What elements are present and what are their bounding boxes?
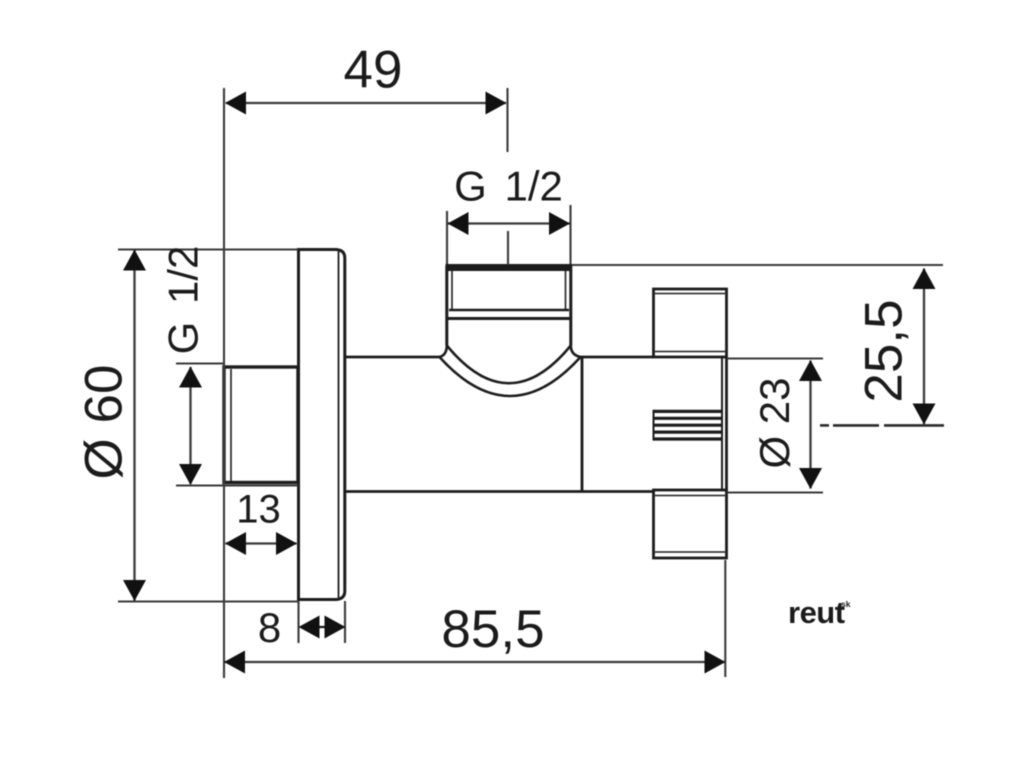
svg-text:reut: reut [788, 595, 845, 630]
dim 25,5 extension line top [572, 264, 943, 266]
svg-text:G 1/2: G 1/2 [454, 163, 563, 210]
svg-text:25,5: 25,5 [855, 299, 914, 402]
svg-text:49: 49 [344, 41, 403, 100]
svg-text:Ø 23: Ø 23 [751, 377, 798, 468]
reut logo [788, 595, 851, 630]
svg-text:sk: sk [841, 599, 851, 609]
svg-text:Ø 60: Ø 60 [75, 365, 134, 480]
dim G1/2 left line [189, 367, 191, 484]
dim dia23 arrows [799, 360, 822, 489]
dim 8 extension lines [299, 601, 346, 643]
dim 25,5 line [923, 269, 925, 425]
valve body [345, 357, 654, 492]
handle lower flange [654, 490, 727, 558]
inlet pipe stub [224, 367, 298, 483]
handle mid section edges [722, 357, 727, 490]
dim dia23 line [809, 361, 811, 489]
dim dia60 extension lines [118, 250, 299, 602]
svg-text:13: 13 [236, 488, 281, 532]
dim 8 arrows [299, 616, 346, 639]
dim 85,5 arrows [224, 651, 726, 674]
dim G1/2 left extension lines [176, 364, 298, 486]
dim 49 line [226, 102, 506, 104]
dim G1/2 left arrows [179, 367, 202, 486]
wall plate (rosette) [299, 250, 345, 600]
dim G1/2 top arrows [448, 212, 571, 235]
dim 25,5 arrows [913, 268, 936, 425]
centerline (dash-dot) [820, 424, 944, 427]
svg-text:85,5: 85,5 [441, 600, 544, 659]
dim dia60 line [133, 250, 135, 601]
dim G1/2 top extension lines [447, 205, 571, 264]
top outlet G1/2 thread [447, 265, 572, 346]
dim 13 line [226, 542, 297, 544]
dim 13 arrows [225, 532, 297, 555]
outlet-to-body saddle curves [440, 346, 581, 397]
dim dia60 arrows [123, 250, 146, 602]
dim 49 arrows [225, 92, 507, 115]
dim 85,5 extension line right [724, 560, 726, 677]
dim dia23 extension lines [727, 359, 823, 493]
dim G1/2 top line [448, 222, 570, 224]
svg-text:8: 8 [258, 604, 281, 651]
svg-text:G 1/2: G 1/2 [160, 246, 207, 355]
dim 85,5 line [225, 661, 725, 663]
dim 49 extension lines [224, 88, 508, 678]
knurled ring [654, 410, 723, 441]
handle upper flange [654, 289, 727, 357]
